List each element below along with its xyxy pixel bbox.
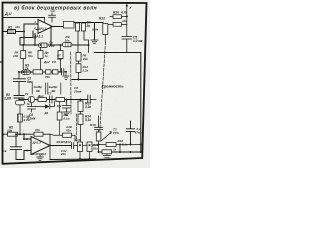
svg-text:4,7м: 4,7м xyxy=(23,118,31,122)
inductor L3 oval xyxy=(22,63,31,74)
wire op-amp2 output xyxy=(50,145,72,147)
node +U label top right xyxy=(129,6,132,10)
label DA1.1 xyxy=(33,35,43,39)
resistor R21 feedback xyxy=(34,128,50,146)
electrolytic oval on left column xyxy=(16,100,31,114)
svg-text:R12: R12 xyxy=(99,17,105,21)
wire row y99.5 xyxy=(19,99,88,101)
label 1к xyxy=(113,147,117,151)
wire from op-amp bottom xyxy=(34,34,36,46)
svg-text:в) блок дециметровых волн: в) блок дециметровых волн xyxy=(14,5,97,12)
op-amp U1 DA1.1 xyxy=(38,20,53,34)
resistor R1 xyxy=(8,25,21,33)
wire +U vertical top right xyxy=(126,3,128,16)
svg-text:51к: 51к xyxy=(93,146,98,150)
svg-text:5,1к: 5,1к xyxy=(122,142,128,146)
resistor on y99.5 xyxy=(56,98,65,102)
resistor R16 on y144.5 xyxy=(106,139,128,147)
svg-text:R10: R10 xyxy=(113,11,119,15)
wire bottom y159 xyxy=(50,158,96,161)
wire vertical node x24 xyxy=(23,24,25,45)
resistor R13 vertical xyxy=(78,100,91,115)
svg-text:1к: 1к xyxy=(113,147,117,151)
label sv xyxy=(3,149,7,153)
label ЭмФ 9В xyxy=(34,85,82,93)
resistor R6 vertical xyxy=(28,47,43,69)
svg-text:47мк: 47мк xyxy=(134,130,143,134)
svg-text:C3: C3 xyxy=(51,9,55,13)
svg-text:Т1: Т1 xyxy=(25,92,29,96)
wire input rail y17 xyxy=(3,17,45,19)
svg-text:2,2к: 2,2к xyxy=(82,69,89,73)
svg-text:С6: С6 xyxy=(52,60,56,64)
wire top of right column y52 xyxy=(95,52,141,54)
wire bottom right y152 xyxy=(99,151,141,153)
wire row y79.5 xyxy=(72,79,97,81)
ground x66 xyxy=(63,72,69,80)
capacitor C9 to gnd xyxy=(63,100,71,113)
label chip type xyxy=(32,140,71,156)
capacitor C3 xyxy=(49,9,56,22)
test point bars xyxy=(32,83,61,94)
capacitor C6 xyxy=(28,103,36,112)
resistor R7 vertical xyxy=(44,45,64,72)
diode D1 xyxy=(36,102,55,115)
inductor L2 oval xyxy=(63,35,73,47)
svg-text:3,3к: 3,3к xyxy=(85,105,91,109)
resistor R19 vertical xyxy=(87,142,99,159)
wire C4b L-path xyxy=(84,31,89,53)
op-amp U2 DA1.2 xyxy=(25,137,50,155)
wire mid row y72 xyxy=(19,71,62,73)
svg-text:ДА1.2: ДА1.2 xyxy=(32,141,42,145)
separator dash line 2 xyxy=(100,42,106,131)
pin digits DA1.1 xyxy=(33,20,36,30)
capacitor C12 series xyxy=(72,143,99,149)
capacitor C2b on left column xyxy=(14,84,24,100)
svg-text:R1: R1 xyxy=(8,26,12,30)
svg-text:4,7к: 4,7к xyxy=(120,11,127,15)
separator dash line 1 xyxy=(70,52,72,114)
wire to op-amp pin3 xyxy=(24,151,31,160)
svg-text:5,1к: 5,1к xyxy=(85,118,91,122)
resistor box on y152 xyxy=(102,150,112,154)
capacitor C13 box xyxy=(57,102,70,136)
wire cap column jog xyxy=(18,72,20,79)
wire feedback rail y135 xyxy=(50,134,75,141)
node Д,U label top left xyxy=(4,12,12,16)
svg-text:R18: R18 xyxy=(75,138,81,142)
svg-text:47к: 47к xyxy=(34,128,40,132)
svg-text:1б0: 1б0 xyxy=(13,54,19,58)
label R7 51k xyxy=(57,54,62,62)
label Громкость xyxy=(102,84,125,89)
svg-text:Др2: Др2 xyxy=(43,60,50,64)
svg-text:R15: R15 xyxy=(90,123,96,127)
resistor box2 on y72 xyxy=(46,70,52,74)
capacitor on x63 column xyxy=(58,69,66,76)
svg-text:10к: 10к xyxy=(15,25,20,29)
separator dash line 1b xyxy=(75,114,77,141)
resistor R4 vertical xyxy=(13,45,26,72)
svg-text:7к: 7к xyxy=(27,102,31,106)
svg-text:47к: 47к xyxy=(121,19,127,23)
resistor R10 xyxy=(110,11,127,19)
capacitor C9 xyxy=(127,121,143,145)
wire op-amp gnd stub xyxy=(49,146,51,160)
svg-text:51к: 51к xyxy=(57,57,62,61)
svg-text:2н: 2н xyxy=(86,24,91,28)
inductor L1 oval xyxy=(39,41,55,48)
resistor R8b vertical xyxy=(76,61,89,79)
wire row y144.5 xyxy=(99,144,141,146)
resistor R8a vertical xyxy=(76,53,88,62)
ground x107 bottom xyxy=(104,154,111,159)
tick outside frame xyxy=(0,61,2,63)
label C6 xyxy=(27,113,36,121)
resistor R2b 10k xyxy=(3,125,50,136)
wire input lower y31 xyxy=(3,31,24,33)
transistor T1 circle xyxy=(28,96,34,102)
capacitor C2 xyxy=(14,76,34,84)
svg-text:ДА1.1: ДА1.1 xyxy=(38,27,47,31)
choke Dr1 xyxy=(25,92,52,102)
wire ground stem x94 xyxy=(94,23,96,41)
wire feedback bottom xyxy=(20,30,38,46)
capacitor C7 series xyxy=(50,96,53,103)
label C12 xyxy=(60,149,67,156)
svg-text:Д1: Д1 xyxy=(44,111,49,115)
resistor R12 vertical xyxy=(92,17,108,43)
resistor R5 xyxy=(63,21,74,28)
svg-text:1к: 1к xyxy=(45,54,49,58)
title text xyxy=(14,5,97,12)
svg-text:Д,U: Д,U xyxy=(4,12,12,16)
svg-text:ГТб: ГТб xyxy=(113,131,119,135)
svg-text:1,2М: 1,2М xyxy=(4,97,11,101)
resistor R17 vertical xyxy=(75,138,83,159)
svg-text:10к: 10к xyxy=(65,39,70,43)
capacitor C4 vertical xyxy=(76,21,91,32)
wire op-amp input xyxy=(24,23,38,25)
svg-text:51к: 51к xyxy=(28,54,33,58)
svg-text:Громкость: Громкость xyxy=(102,84,125,89)
svg-text:0,1м: 0,1м xyxy=(64,117,71,121)
resistor R14 vertical xyxy=(78,114,91,142)
svg-text:20мк: 20мк xyxy=(73,89,82,93)
resistor box3 on y72 xyxy=(53,70,59,74)
wire C4a down xyxy=(77,31,79,53)
ground under op-amp xyxy=(37,155,44,161)
wire vertical x126.8 xyxy=(126,16,128,37)
svg-text:ЗЗк: ЗЗк xyxy=(83,57,89,61)
svg-text:70к: 70к xyxy=(45,75,50,79)
svg-text:1,0 мк: 1,0 мк xyxy=(133,39,143,43)
electrolytic C11 box xyxy=(18,114,31,134)
ground x66 bottom xyxy=(63,112,70,116)
label R2 xyxy=(4,93,11,101)
svg-text:В140УД12: В140УД12 xyxy=(57,140,71,144)
border frame of schematic block xyxy=(3,3,147,164)
wire mid rail y45 xyxy=(20,44,89,46)
capacitor box on y135 xyxy=(63,125,72,137)
svg-text:20к: 20к xyxy=(60,152,66,156)
wire feedback from output xyxy=(50,27,52,46)
wire op-amp output xyxy=(53,26,68,28)
label T2 xyxy=(113,127,119,134)
capacitor C8 series xyxy=(88,95,96,103)
pot R15 with capacitor top xyxy=(90,116,112,152)
svg-text:св: св xyxy=(3,149,7,153)
capacitor C5 xyxy=(122,36,143,53)
wire to R12 xyxy=(74,22,103,24)
resistor R11 xyxy=(108,19,127,26)
svg-text:С7: С7 xyxy=(48,92,52,96)
svg-text:42н: 42н xyxy=(65,129,71,133)
wire stub into op-amp top xyxy=(44,18,46,23)
labels near y72 row xyxy=(43,60,56,79)
wire vertical x120 xyxy=(119,145,121,153)
resistor box on y72 xyxy=(33,70,43,74)
svg-text:В140УД12: В140УД12 xyxy=(32,152,46,156)
wire bottom rail left xyxy=(16,159,24,161)
wire right column x141 xyxy=(140,53,142,153)
svg-text:100к: 100к xyxy=(92,28,99,32)
wire op-amp2 in- xyxy=(24,134,31,139)
capacitor C10 xyxy=(11,134,22,159)
ground xyxy=(91,40,98,44)
